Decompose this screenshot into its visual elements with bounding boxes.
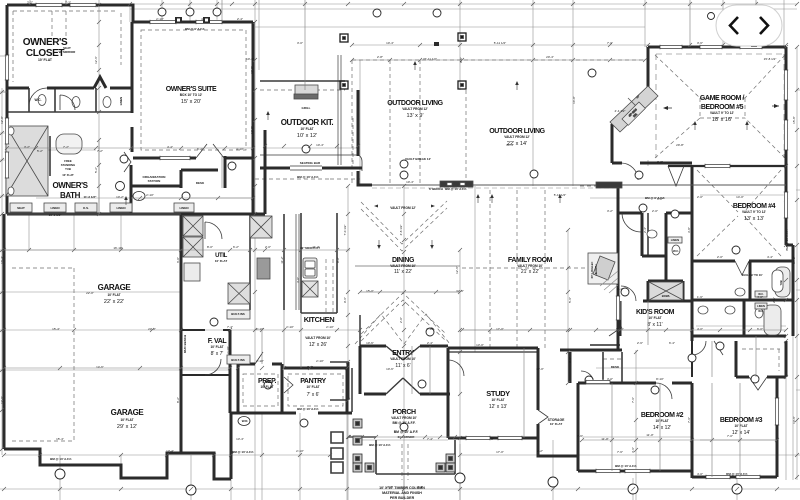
svg-text:10' FLAT: 10' FLAT	[120, 418, 133, 422]
svg-text:LINEN: LINEN	[757, 304, 765, 308]
svg-text:2'-10": 2'-10"	[156, 17, 164, 21]
dimension tiny texts	[24, 57, 776, 441]
svg-text:3'-6": 3'-6"	[631, 447, 635, 453]
svg-text:14'-6": 14'-6"	[96, 365, 104, 369]
svg-text:TUB: TUB	[779, 280, 783, 285]
toilets WC row	[38, 95, 46, 106]
svg-text:W.R.: W.R.	[242, 419, 249, 423]
svg-text:2'-8": 2'-8"	[377, 55, 383, 59]
svg-text:LINEN: LINEN	[671, 238, 679, 242]
svg-text:OWNER'S SUITE: OWNER'S SUITE	[166, 86, 217, 93]
svg-text:3'-2": 3'-2"	[607, 209, 613, 213]
svg-text:3'-2": 3'-2"	[27, 1, 33, 5]
svg-text:5'-2": 5'-2"	[94, 167, 98, 173]
game room	[648, 46, 786, 49]
svg-text:VAULT 9' TO 12': VAULT 9' TO 12'	[710, 111, 734, 115]
svg-text:13'-6": 13'-6"	[792, 416, 796, 424]
svg-text:BM @ 9' A.F.F.: BM @ 9' A.F.F.	[185, 27, 205, 31]
svg-text:BM @ 10' A.F.F.: BM @ 10' A.F.F.	[785, 229, 789, 250]
svg-text:SEATING BAR: SEATING BAR	[300, 161, 321, 165]
svg-text:7' x 6': 7' x 6'	[307, 392, 320, 398]
bedrooms 2/3	[577, 383, 580, 471]
svg-text:10'-6": 10'-6"	[386, 367, 394, 371]
svg-text:10' FLAT: 10' FLAT	[107, 293, 120, 297]
svg-text:7'-4": 7'-4"	[427, 437, 433, 441]
svg-text:10'-2": 10'-2"	[116, 195, 124, 199]
svg-text:BOX 10' TO 12': BOX 10' TO 12'	[180, 93, 203, 97]
svg-text:BM @ 10' A.F.F.: BM @ 10' A.F.F.	[394, 430, 419, 434]
svg-text:17'-0": 17'-0"	[496, 327, 504, 331]
svg-text:2'-4": 2'-4"	[427, 341, 433, 345]
porch gable	[355, 314, 450, 344]
svg-text:BM @ 10' A.F.F.: BM @ 10' A.F.F.	[369, 443, 391, 447]
svg-text:5'-2": 5'-2"	[37, 149, 43, 153]
svg-text:11'-0": 11'-0"	[646, 433, 653, 437]
svg-text:3'-0": 3'-0"	[296, 277, 300, 283]
svg-text:STATION: STATION	[148, 179, 161, 183]
svg-text:15'-8 1/2": 15'-8 1/2"	[764, 57, 777, 61]
svg-text:2'-10": 2'-10"	[286, 325, 294, 329]
svg-text:BEDROOM #5: BEDROOM #5	[701, 104, 744, 111]
svg-text:3'-2": 3'-2"	[24, 145, 30, 149]
beam line across family room	[372, 184, 786, 186]
svg-text:LINEN: LINEN	[117, 206, 126, 210]
svg-text:4'-0": 4'-0"	[697, 472, 703, 476]
svg-text:6'-0": 6'-0"	[176, 257, 180, 263]
svg-text:MUD BENCH: MUD BENCH	[183, 335, 187, 353]
svg-text:2'-8": 2'-8"	[657, 160, 663, 164]
svg-text:4'-4": 4'-4"	[767, 255, 773, 259]
svg-text:4'-0": 4'-0"	[757, 295, 763, 299]
svg-text:2'-4": 2'-4"	[237, 17, 243, 21]
svg-text:GARAGE: GARAGE	[98, 283, 132, 292]
svg-text:BEDROOM #2: BEDROOM #2	[641, 412, 684, 419]
svg-text:32'-0": 32'-0"	[250, 66, 254, 74]
svg-text:2'-0": 2'-0"	[399, 317, 403, 323]
svg-text:11'-0": 11'-0"	[601, 437, 608, 441]
svg-text:BM @ 10' A.F.F.: BM @ 10' A.F.F.	[392, 421, 415, 425]
svg-text:4'-10": 4'-10"	[236, 147, 244, 151]
svg-text:2'-6": 2'-6"	[637, 341, 643, 345]
svg-text:10'-6": 10'-6"	[366, 341, 374, 345]
posts	[340, 33, 466, 89]
svg-text:PORCH: PORCH	[392, 409, 416, 416]
svg-text:BM @ 10' A.F.F.: BM @ 10' A.F.F.	[615, 464, 637, 468]
svg-text:2'-4": 2'-4"	[643, 227, 647, 233]
svg-text:3'-0": 3'-0"	[297, 41, 303, 45]
svg-text:7'-2": 7'-2"	[97, 149, 103, 153]
carousel pill	[716, 5, 782, 46]
svg-text:W.C.: W.C.	[673, 249, 679, 253]
svg-text:GRILL: GRILL	[302, 106, 311, 110]
svg-text:TUB: TUB	[65, 167, 71, 171]
svg-text:8' x 7': 8' x 7'	[211, 351, 224, 357]
porch timber columns	[353, 419, 455, 472]
svg-text:10' FLAT: 10' FLAT	[215, 259, 227, 263]
svg-text:OWNER'S: OWNER'S	[52, 181, 88, 190]
svg-text:7'-2": 7'-2"	[65, 1, 71, 5]
svg-text:GAME ROOM /: GAME ROOM /	[700, 95, 745, 102]
svg-text:VAULT FROM 12': VAULT FROM 12'	[504, 135, 530, 139]
kitchen island fixtures	[303, 258, 317, 278]
svg-text:GARAGE: GARAGE	[111, 408, 145, 417]
svg-text:29' x 12': 29' x 12'	[117, 424, 137, 430]
svg-text:15'-4": 15'-4"	[56, 437, 64, 441]
svg-text:LINEN: LINEN	[51, 206, 60, 210]
owner closet/suite	[7, 5, 253, 22]
svg-text:10' FLAT: 10' FLAT	[300, 127, 313, 131]
svg-text:7'-0 1/2": 7'-0 1/2"	[343, 225, 347, 236]
svg-text:10' FLAT: 10' FLAT	[655, 419, 668, 423]
svg-text:VAULT FROM 10': VAULT FROM 10'	[391, 416, 417, 420]
svg-text:LINEN: LINEN	[180, 206, 189, 210]
svg-text:BEDROOM #3: BEDROOM #3	[720, 417, 763, 424]
svg-text:17'-0": 17'-0"	[496, 450, 504, 454]
kitchen/pantry region	[359, 315, 361, 346]
svg-text:DESK: DESK	[196, 181, 205, 185]
bench bars dark	[440, 181, 473, 187]
svg-text:8'-0": 8'-0"	[207, 245, 213, 249]
svg-text:11' x 6': 11' x 6'	[395, 363, 410, 369]
svg-text:7'-6": 7'-6"	[617, 450, 623, 454]
svg-text:2'-4": 2'-4"	[617, 287, 623, 291]
svg-text:13' x 9': 13' x 9'	[406, 113, 423, 119]
svg-text:2'-0": 2'-0"	[717, 255, 723, 259]
svg-text:2'-10": 2'-10"	[146, 193, 154, 197]
svg-text:12'-6": 12'-6"	[0, 396, 4, 404]
svg-text:VAULT 9' TO 10': VAULT 9' TO 10'	[741, 273, 762, 277]
svg-text:PANTRY: PANTRY	[300, 378, 326, 385]
svg-text:12' x 26': 12' x 26'	[309, 342, 327, 348]
svg-text:11'-2 1/2": 11'-2 1/2"	[84, 195, 98, 199]
bedroom 2/3 hall	[578, 382, 692, 385]
svg-text:W.C.: W.C.	[35, 98, 42, 102]
svg-text:2'-2": 2'-2"	[537, 449, 543, 453]
svg-text:10' FLAT: 10' FLAT	[648, 316, 661, 320]
svg-text:VAULT FROM 10': VAULT FROM 10'	[390, 264, 416, 268]
game room vault	[655, 55, 785, 158]
svg-text:1'-6": 1'-6"	[697, 295, 703, 299]
svg-text:2'-10": 2'-10"	[226, 346, 230, 354]
svg-text:BM @ 10' A.F.F.: BM @ 10' A.F.F.	[297, 175, 319, 179]
svg-text:SEAT: SEAT	[17, 206, 25, 210]
suite tray dashed	[141, 30, 246, 150]
svg-text:VAULT FROM 10': VAULT FROM 10'	[517, 264, 543, 268]
svg-text:13'-0": 13'-0"	[476, 343, 484, 347]
grill	[295, 85, 318, 95]
svg-text:12' x 14': 12' x 14'	[732, 430, 750, 436]
bedroom4 vault	[697, 170, 781, 256]
svg-text:3'-6": 3'-6"	[697, 41, 703, 45]
svg-text:6' BENCH: 6' BENCH	[429, 187, 443, 191]
svg-text:11'-2": 11'-2"	[312, 245, 319, 249]
svg-text:2'-10": 2'-10"	[326, 325, 334, 329]
svg-text:6'-0": 6'-0"	[757, 327, 763, 331]
game room fireplace	[610, 86, 658, 132]
svg-text:13' x 13': 13' x 13'	[744, 216, 764, 222]
svg-text:PREP.: PREP.	[258, 378, 277, 385]
garage	[3, 214, 6, 449]
svg-text:14' x 12': 14' x 12'	[653, 425, 671, 431]
svg-text:10'-4": 10'-4"	[406, 180, 414, 184]
svg-text:MATERIAL AND FINISH: MATERIAL AND FINISH	[382, 491, 422, 495]
kid bath shower	[649, 282, 683, 300]
svg-text:5'-11 1/2": 5'-11 1/2"	[494, 41, 506, 45]
svg-text:13'-4": 13'-4"	[236, 437, 244, 441]
svg-text:F. VAL: F. VAL	[208, 338, 228, 345]
svg-text:21' x 22': 21' x 22'	[521, 269, 539, 275]
dining vault chevrons	[361, 201, 447, 251]
svg-text:2'-10": 2'-10"	[316, 359, 324, 363]
svg-text:VAULT FROM 12': VAULT FROM 12'	[402, 107, 428, 111]
svg-text:15'-0": 15'-0"	[366, 289, 374, 293]
closet shelving dashed	[13, 11, 121, 82]
svg-text:BM @ 10' A.F.F.: BM @ 10' A.F.F.	[297, 407, 319, 411]
svg-text:3'-0": 3'-0"	[607, 377, 613, 381]
svg-text:W.C.: W.C.	[758, 309, 764, 313]
svg-text:BOWL: BOWL	[662, 294, 671, 298]
svg-text:2'-0": 2'-0"	[697, 195, 703, 199]
svg-text:9'-2": 9'-2"	[336, 257, 340, 263]
svg-text:29'-8": 29'-8"	[676, 143, 684, 147]
svg-text:OUTDOOR LIVING: OUTDOOR LIVING	[387, 100, 443, 107]
svg-text:4'-4": 4'-4"	[167, 145, 173, 149]
svg-text:6'-2": 6'-2"	[233, 245, 239, 249]
svg-text:9'-6": 9'-6"	[343, 297, 347, 303]
svg-text:4'-0": 4'-0"	[697, 327, 703, 331]
svg-text:DINING: DINING	[392, 257, 415, 264]
svg-text:4'-4 1/2": 4'-4 1/2"	[615, 109, 626, 113]
freestanding tub	[56, 134, 82, 154]
svg-text:BM @ 10' A.F.F.: BM @ 10' A.F.F.	[50, 457, 72, 461]
svg-text:14'-0": 14'-0"	[736, 195, 744, 199]
svg-text:10' FLAT: 10' FLAT	[260, 385, 273, 389]
svg-text:16'-4": 16'-4"	[0, 256, 4, 264]
svg-text:7'-4": 7'-4"	[227, 325, 233, 329]
svg-text:12'-6": 12'-6"	[94, 56, 98, 64]
outdoor kitchen	[260, 167, 362, 170]
svg-text:18' x 16': 18' x 16'	[712, 117, 732, 123]
svg-text:10' FLAT: 10' FLAT	[734, 424, 747, 428]
svg-text:2'-6": 2'-6"	[772, 297, 776, 303]
svg-text:KID'S ROOM: KID'S ROOM	[636, 309, 675, 316]
svg-text:14'-0": 14'-0"	[572, 96, 576, 104]
small labels	[17, 94, 783, 500]
svg-text:7'-2": 7'-2"	[63, 145, 69, 149]
svg-text:12'-0": 12'-0"	[0, 116, 4, 124]
svg-text:60" LIN ELEC: 60" LIN ELEC	[590, 262, 594, 279]
svg-text:2'-0": 2'-0"	[652, 209, 658, 213]
svg-text:2'-4": 2'-4"	[417, 485, 423, 489]
svg-text:BUILT-INS: BUILT-INS	[231, 358, 245, 362]
svg-text:BM @ 10' A.F.F.: BM @ 10' A.F.F.	[232, 450, 254, 454]
svg-text:LINEN: LINEN	[119, 97, 123, 105]
svg-text:10'-4": 10'-4"	[316, 143, 324, 147]
svg-text:22'-0": 22'-0"	[86, 291, 94, 295]
svg-text:FAMILY ROOM: FAMILY ROOM	[508, 257, 553, 264]
svg-text:10' FLAT: 10' FLAT	[550, 422, 562, 426]
svg-text:7'-6": 7'-6"	[577, 434, 583, 438]
svg-text:15'-4": 15'-4"	[52, 327, 60, 331]
svg-text:7'-6": 7'-6"	[631, 397, 635, 403]
right tubs	[775, 267, 790, 297]
walkway	[402, 444, 408, 480]
outdoor eaves	[352, 59, 645, 61]
svg-text:10' x 12': 10' x 12'	[297, 133, 317, 139]
svg-text:7'-0": 7'-0"	[607, 41, 613, 45]
svg-text:OUTDOOR KIT.: OUTDOOR KIT.	[281, 118, 334, 127]
family room ceiling dashed	[490, 190, 545, 350]
svg-text:3'-0": 3'-0"	[387, 485, 393, 489]
svg-text:8'-10": 8'-10"	[656, 377, 664, 381]
svg-text:BATH: BATH	[60, 191, 81, 200]
svg-text:VAULT FROM 10': VAULT FROM 10'	[305, 336, 331, 340]
svg-text:BEDROOM #4: BEDROOM #4	[733, 203, 776, 210]
svg-text:10' FLAT: 10' FLAT	[62, 173, 74, 177]
utility fixtures	[183, 216, 203, 236]
svg-text:13'-4": 13'-4"	[166, 449, 174, 453]
svg-text:W/ MIRROR: W/ MIRROR	[59, 50, 76, 54]
owner shower	[6, 126, 48, 196]
svg-text:30'-4": 30'-4"	[506, 143, 514, 147]
svg-text:14'-2": 14'-2"	[792, 256, 796, 264]
svg-text:10'-2": 10'-2"	[246, 57, 254, 61]
svg-text:VAULT BREAK 12': VAULT BREAK 12'	[405, 157, 431, 161]
svg-text:3'-2": 3'-2"	[657, 197, 663, 201]
garage dashed	[12, 268, 74, 441]
svg-text:15' x 20': 15' x 20'	[181, 99, 201, 105]
svg-text:3'-8": 3'-8"	[687, 227, 691, 233]
svg-text:10' FLAT: 10' FLAT	[210, 345, 223, 349]
right wing walls	[691, 166, 694, 341]
svg-text:DESK: DESK	[611, 365, 620, 369]
svg-text:15'-2 1/2": 15'-2 1/2"	[49, 213, 62, 217]
svg-text:10'-4": 10'-4"	[386, 41, 394, 45]
svg-text:12'-0": 12'-0"	[250, 126, 254, 134]
svg-text:2'-10": 2'-10"	[256, 359, 264, 363]
svg-text:BUILT-INS: BUILT-INS	[231, 312, 245, 316]
svg-text:3'-6": 3'-6"	[568, 357, 572, 363]
svg-text:9'-0": 9'-0"	[459, 57, 463, 63]
svg-text:OUTDOOR LIVING: OUTDOOR LIVING	[489, 128, 545, 135]
svg-text:15'-8": 15'-8"	[792, 116, 796, 124]
svg-text:20'-4": 20'-4"	[546, 55, 554, 59]
svg-text:12' x 13': 12' x 13'	[489, 404, 507, 410]
svg-text:22' x 22': 22' x 22'	[104, 299, 124, 305]
svg-text:5'-6": 5'-6"	[568, 297, 572, 303]
svg-text:2'-0": 2'-0"	[265, 245, 271, 249]
svg-text:2'-10": 2'-10"	[296, 449, 304, 453]
svg-text:6'-2": 6'-2"	[197, 147, 203, 151]
svg-text:PER BUILDER: PER BUILDER	[390, 496, 415, 500]
svg-text:7'-6": 7'-6"	[687, 417, 691, 423]
svg-text:10' FLAT: 10' FLAT	[491, 398, 504, 402]
family/entry/study	[569, 352, 572, 383]
svg-text:K.S.: K.S.	[83, 206, 89, 210]
svg-text:STUDY: STUDY	[486, 389, 510, 398]
family hearth	[588, 253, 618, 284]
svg-text:10' FLAT: 10' FLAT	[38, 58, 53, 62]
svg-text:6'-4": 6'-4"	[669, 341, 675, 345]
svg-text:HEARTH: HEARTH	[594, 264, 598, 275]
svg-text:8' x 11': 8' x 11'	[647, 322, 662, 328]
svg-text:2'-10": 2'-10"	[426, 327, 434, 331]
svg-text:37'-11 1/2": 37'-11 1/2"	[423, 57, 437, 61]
svg-text:11'-2": 11'-2"	[280, 256, 284, 263]
svg-text:13'-0": 13'-0"	[536, 367, 544, 371]
svg-text:ENTRY: ENTRY	[392, 350, 414, 357]
svg-text:10' FLAT: 10' FLAT	[306, 385, 319, 389]
svg-text:VAULT 9' TO 12': VAULT 9' TO 12'	[742, 210, 766, 214]
svg-text:7'-0": 7'-0"	[727, 434, 733, 438]
svg-text:12'-6": 12'-6"	[455, 266, 459, 274]
svg-text:KITCHEN: KITCHEN	[304, 315, 335, 324]
svg-text:VAULT FROM 12': VAULT FROM 12'	[390, 206, 416, 210]
svg-text:OWNER'S: OWNER'S	[23, 37, 68, 48]
svg-text:8'-2": 8'-2"	[176, 397, 180, 403]
svg-text:BM @ 10' A.F.F.: BM @ 10' A.F.F.	[445, 187, 467, 191]
svg-text:4'-8 1/2": 4'-8 1/2"	[399, 225, 403, 236]
svg-text:11' x 22': 11' x 22'	[394, 269, 412, 275]
